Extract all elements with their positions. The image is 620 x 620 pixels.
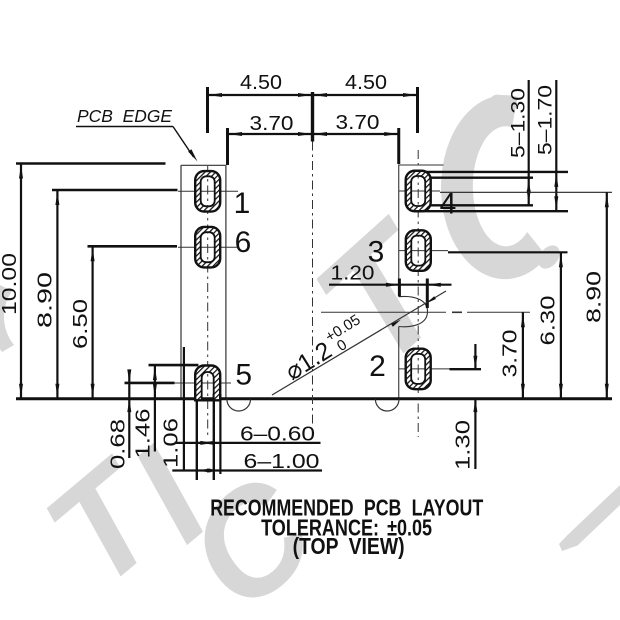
svg-text:2: 2 <box>369 350 386 383</box>
svg-text:0.68: 0.68 <box>108 419 130 469</box>
pad 5 center line <box>175 382 232 384</box>
label pin 5 <box>235 359 252 392</box>
dim 4.50 left <box>208 94 418 96</box>
watermark I bottom-left <box>101 419 238 571</box>
dim 6.50 <box>91 246 93 398</box>
label pin 1 <box>234 187 251 220</box>
pad5 edge extension lines <box>196 399 198 480</box>
svg-text:6.30: 6.30 <box>538 296 560 346</box>
svg-text:4: 4 <box>440 188 457 221</box>
leader dia 1.2 <box>272 291 446 395</box>
label pin 2 <box>369 350 386 383</box>
watermark T center <box>281 187 488 399</box>
dim 4.50 right text <box>345 72 387 94</box>
pad 3 center line <box>399 250 448 252</box>
note dia 1.2 +0.05/0 <box>278 311 371 386</box>
ref pad4 hole top <box>424 176 533 178</box>
pad 1 center line <box>178 190 238 192</box>
ref line 1.46 pad5 top <box>149 364 199 367</box>
label pin 6 <box>235 226 252 259</box>
dim 1.30 <box>474 344 476 369</box>
svg-text:3.70: 3.70 <box>250 113 294 135</box>
watermark partial C left edge <box>0 285 14 352</box>
ref pad4 hole bottom <box>424 204 533 206</box>
pad 2 <box>406 349 431 390</box>
svg-text:1: 1 <box>234 187 251 220</box>
ref 8.90 right <box>440 191 612 193</box>
svg-text:6.50: 6.50 <box>70 299 92 349</box>
connector body outline right, with hole notch <box>398 165 400 297</box>
notch semicircle right <box>375 399 399 411</box>
dim 1.06 extension <box>183 347 185 471</box>
svg-text:8.90: 8.90 <box>35 272 57 328</box>
label pin 4 <box>440 188 457 221</box>
watermark C top-right <box>441 95 547 279</box>
svg-text:5: 5 <box>235 359 252 392</box>
ref pad4 outer bottom <box>421 210 568 212</box>
dim 8.90 left <box>56 190 58 399</box>
svg-text:3: 3 <box>368 236 385 269</box>
title line 1 <box>210 495 483 521</box>
connector body outline left box <box>180 165 182 398</box>
dim 3.70 right <box>522 312 524 398</box>
dim 1.46 <box>154 365 156 451</box>
pad 4 center line <box>399 190 440 192</box>
hole center line <box>321 311 446 313</box>
centerline right pad column <box>417 150 419 437</box>
ref line 6.50 <box>88 245 178 248</box>
svg-text:4.50: 4.50 <box>345 72 387 94</box>
pad 6 center line <box>178 246 238 248</box>
dim 3.70 left <box>228 133 399 135</box>
hole arc (1.2mm plated half hole) <box>399 296 428 326</box>
dim 3.70 right text <box>336 112 380 134</box>
notch semicircle left <box>227 399 251 411</box>
svg-text:PCB EDGE: PCB EDGE <box>77 106 172 126</box>
svg-text:10.00: 10.00 <box>0 253 21 315</box>
centerline middle <box>312 142 314 426</box>
PCB EDGE leader <box>173 127 194 158</box>
dim 10.00 <box>20 164 22 399</box>
ref line 8.90 <box>52 189 178 192</box>
watermark C bottom-left <box>156 445 346 620</box>
dim 6-1.00 <box>172 469 322 471</box>
svg-text:3.70: 3.70 <box>336 112 380 134</box>
dim 6.30 <box>560 252 562 398</box>
dim 8.90 right <box>606 192 608 398</box>
ref 6.30 <box>448 251 568 253</box>
label pin 3 <box>368 236 385 269</box>
pad 4 <box>406 171 431 212</box>
svg-text:6–0.60: 6–0.60 <box>240 424 315 446</box>
title line 2 <box>261 515 432 541</box>
svg-text:6–1.00: 6–1.00 <box>244 451 320 473</box>
svg-text:6: 6 <box>235 226 252 259</box>
svg-text:(TOP VIEW): (TOP VIEW) <box>293 533 405 559</box>
PCB edge thick line <box>16 397 612 400</box>
pad 2 center line <box>399 368 450 370</box>
svg-text:3.70: 3.70 <box>500 330 522 378</box>
svg-text:5–1.70: 5–1.70 <box>536 85 557 155</box>
svg-text:5–1.30: 5–1.30 <box>509 88 530 158</box>
dim 6-0.60 <box>175 442 321 444</box>
ref line 0.68 pad5 center <box>125 382 175 385</box>
watermark TIC bottom-left <box>16 429 196 617</box>
svg-text:1.30: 1.30 <box>453 420 475 470</box>
dim 5-1.70 <box>555 80 557 211</box>
ref pad4 outer top <box>424 171 568 173</box>
svg-text:1.46: 1.46 <box>133 409 155 459</box>
title line 3 <box>293 533 405 559</box>
ref 1.30 pad2 center tick <box>450 368 482 370</box>
pad 5 (half pad at board edge) <box>195 366 220 401</box>
svg-text:8.90: 8.90 <box>584 271 606 323</box>
ref line 10.00 <box>16 162 166 165</box>
PCB EDGE label <box>77 106 172 126</box>
dim 0.68 <box>128 374 130 458</box>
dim 1.20 hole <box>329 284 452 286</box>
pad 6 <box>195 227 220 268</box>
svg-text:4.50: 4.50 <box>240 72 282 94</box>
centerline left pad column <box>207 166 209 437</box>
pad 1 <box>195 171 220 212</box>
pad 3 <box>406 230 431 271</box>
watermark partial T bottom-right <box>559 478 620 552</box>
dim 5-1.30 <box>528 80 530 205</box>
